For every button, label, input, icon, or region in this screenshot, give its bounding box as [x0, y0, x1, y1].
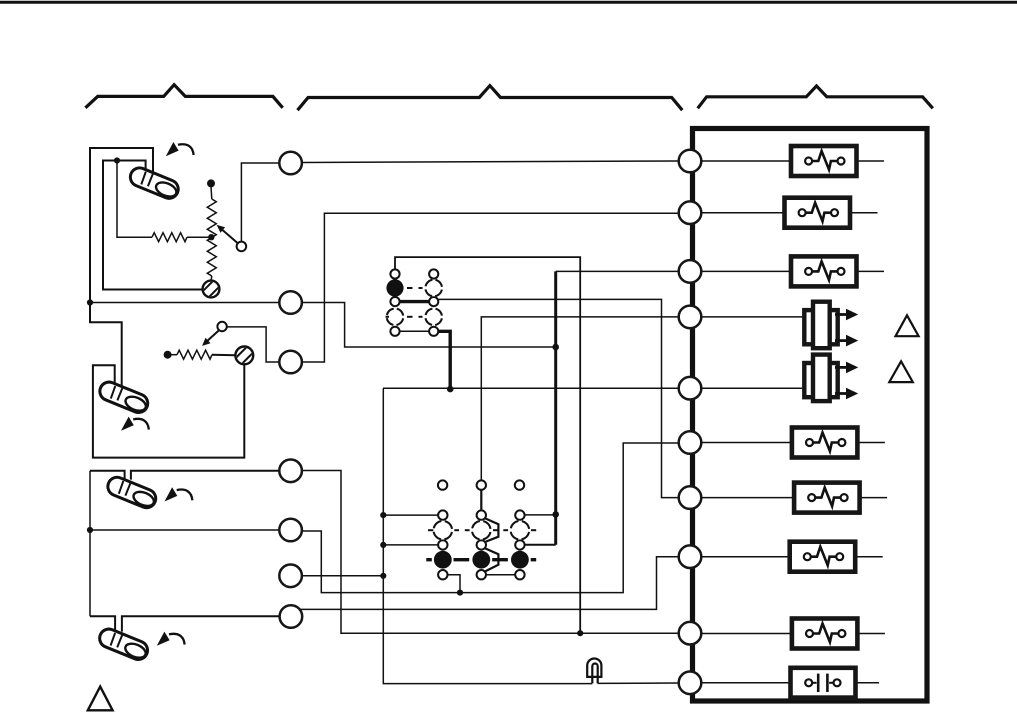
connector plug P1 arrows: [835, 315, 847, 341]
breaker F2 box: [785, 198, 851, 228]
switch block terminal: [438, 570, 447, 579]
rotate arrow for S1: [166, 142, 194, 156]
rotate arrow for S3: [165, 487, 193, 501]
breaker F3 lead: [701, 270, 805, 272]
wire pin2 right to x344 down to relay feed: [302, 303, 553, 348]
switch block terminal: [477, 540, 486, 549]
switch block row1 contact open (dashed): [511, 521, 530, 540]
relay K1 terminal: [390, 297, 399, 306]
wire pin6 to x383 junction: [302, 575, 383, 577]
wire col1 bottom terminal down to y592: [447, 575, 460, 593]
wire pot2 wiper to pin3: [227, 327, 279, 362]
relay K1 link dashes row1: [407, 287, 423, 289]
breaker F1 box: [791, 146, 857, 176]
y389 net to right-pin5 and x383 bus down to lamp wire: [383, 388, 678, 683]
switch block terminal: [438, 540, 447, 549]
connector plug P1 body: [804, 310, 837, 344]
relay K1 contact open (dashed): [387, 309, 404, 326]
wire right-pin4 to col2 actuator top: [481, 317, 678, 480]
connector pin 7: [280, 605, 303, 628]
capacitor C1 box: [791, 668, 856, 698]
connector plug P2 lead: [701, 387, 806, 389]
control unit pin R3: [679, 260, 702, 283]
control unit pin R7: [679, 486, 702, 509]
VR1 tap junction: [208, 234, 214, 240]
switch block row2 contact closed (filled): [434, 551, 452, 569]
breaker F7 box: [792, 619, 858, 649]
breaker F4 element: [813, 433, 839, 452]
junction dots on x383 bus: [380, 512, 386, 518]
switch block terminal: [477, 510, 486, 519]
rotate arrow for S2: [121, 417, 149, 431]
note triangle 3: [88, 687, 113, 711]
relay K1 terminal: [429, 297, 438, 306]
connector pin 5: [279, 519, 302, 542]
note triangle 1: [896, 315, 919, 336]
relay K1 contact closed (filled): [386, 279, 403, 296]
control unit pin R10: [679, 672, 702, 695]
junction x556/y514: [552, 511, 559, 518]
breaker F5 lead: [701, 497, 808, 499]
breaker F1 lead: [701, 160, 805, 162]
relay K1 link dashes row2: [386, 316, 423, 318]
ignition key switch S3: [105, 474, 158, 510]
switch block floating contact point: [515, 480, 524, 489]
lamp/LED DS1: [587, 658, 601, 676]
connector pin 2: [279, 291, 302, 314]
switch block terminal: [515, 570, 524, 579]
row2 link dashes (thick): [426, 558, 536, 561]
resistor R2 / pot2 body: [164, 351, 172, 359]
control unit box U1: [693, 129, 928, 702]
control unit pin R9: [679, 622, 702, 645]
connector pin 4: [279, 460, 302, 483]
breaker F6 element: [811, 547, 837, 566]
wire pin5 left: [90, 529, 279, 531]
breaker F5 box: [794, 483, 860, 513]
junction x580/y633: [577, 630, 583, 636]
wire key3 right segment to pin4: [131, 471, 279, 480]
junction pin2 left: [87, 299, 93, 305]
wire pin3 to right-pin2: [302, 213, 679, 362]
junction y592/x460: [457, 590, 463, 596]
capacitor C1 element: [812, 682, 816, 684]
wire pin5 to y592 bus to right-pin6: [302, 443, 679, 593]
pot2 adjuster (hatched circle): [226, 337, 256, 367]
pot2 wiper arrow: [207, 330, 219, 341]
wire key2 left terminal loop to pot2 bottom: [93, 365, 244, 458]
relay K1 terminal: [429, 327, 438, 336]
wire x90 down from pin4 row to key4 row: [89, 471, 91, 616]
relay K1 terminal: [390, 269, 399, 278]
x556 bus: right-pin3 lead down to col3: [556, 270, 679, 272]
row1 link dashes: [428, 529, 536, 531]
switch block row2 contact closed (filled): [511, 551, 529, 569]
connector plug P2 arrows: [835, 367, 847, 393]
relay K1 middle-right to right-pin7: [438, 299, 679, 497]
brace group 1 (left section): [85, 85, 282, 108]
switch block row2 contact closed (filled): [472, 551, 490, 569]
ignition key switch S4: [97, 626, 150, 662]
junction pin5 left: [87, 527, 93, 533]
col2 actuator link: [481, 489, 498, 571]
switch block row1 contact open (dashed): [434, 521, 453, 540]
breaker F4 box: [792, 428, 858, 458]
brace group 2 (middle section): [298, 86, 683, 111]
resistor R1: [152, 233, 187, 242]
lamp wire right side to right-pin10: [598, 682, 679, 684]
col2-col3 bottom link wire: [486, 574, 515, 576]
connector pin 6: [279, 565, 302, 588]
relay K1 bottoms to x450 (thick) down to y389 junction: [438, 331, 450, 387]
connector plug P1 lead: [701, 316, 806, 318]
breaker F6 lead: [701, 556, 804, 558]
wire pin1 to right-pin1: [302, 161, 679, 163]
wire key1 outer terminal loop: [90, 148, 153, 301]
relay K1 terminal: [429, 269, 438, 278]
wire key3 left segment: [90, 471, 125, 480]
relay K1 middle link (thick): [399, 300, 431, 303]
wire pin4 to y633 to right-pin9: [302, 471, 679, 634]
junction x450/y389: [447, 386, 454, 393]
switch block terminal: [515, 510, 524, 519]
control unit pin R1: [679, 150, 702, 173]
wire pin7 to right-pin8: [300, 557, 679, 610]
switch block terminal: [438, 510, 447, 519]
brace group 3 (right section): [698, 86, 933, 108]
control unit pin R5: [679, 377, 702, 400]
wire to pin2: [90, 302, 279, 304]
VR1 wiper terminal circle: [237, 242, 247, 252]
relay K1 terminal: [390, 327, 399, 336]
pot2 wiper terminal circle: [217, 322, 226, 331]
control unit pin R2: [679, 201, 702, 224]
wire key4 left segment: [90, 616, 115, 631]
ignition key switch S2: [97, 379, 150, 415]
breaker F7 element: [813, 624, 839, 643]
relay K1 contact open (dashed): [425, 309, 442, 326]
wire branch to horizontal resistor R1: [117, 161, 152, 238]
breaker F6 box: [790, 542, 856, 572]
control unit pin R6: [679, 431, 702, 454]
breaker F2 lead: [701, 212, 799, 214]
breaker F1 element: [812, 151, 838, 170]
breaker F5 element: [815, 488, 841, 507]
junction x556/y347: [552, 344, 559, 351]
wire down to key2 right terminal: [90, 304, 122, 386]
control unit pin R8: [679, 545, 702, 568]
breaker F7 lead: [701, 633, 806, 635]
switch block terminal: [515, 540, 524, 549]
relay K1 top-left wire to x580 bus down to y633: [395, 257, 580, 633]
ignition key switch S1: [128, 165, 181, 201]
wire key4 right segment to pin7: [122, 616, 280, 631]
rotate arrow for S4: [157, 632, 185, 646]
wire key1 inner terminal to pot1 bottom: [103, 161, 203, 290]
breaker F3 box: [791, 256, 857, 286]
switch block floating contact point: [477, 480, 486, 489]
relay K1 bottom link: [396, 330, 433, 332]
connector pin 1: [279, 152, 302, 175]
wire pin1 to pot1 wiper terminal: [241, 163, 279, 242]
junction key1 inner branch: [114, 157, 120, 163]
relay K1 contact open (dashed): [425, 280, 442, 297]
connector plug P2 body: [804, 363, 837, 397]
breaker F3 element: [812, 261, 838, 280]
potentiometer VR1 body: [210, 186, 213, 199]
breaker F4 lead: [701, 442, 806, 444]
wire x383 to col1 top terminal: [383, 514, 438, 516]
wire x383 to col1 mid terminal: [383, 544, 438, 546]
control unit pin R4: [679, 306, 702, 329]
page top border line: [0, 1, 1017, 4]
VR1 top terminal dot: [207, 179, 215, 187]
VR1 bottom adjuster (hatched circle): [193, 271, 223, 301]
capacitor C1 leads: [701, 682, 805, 684]
connector pin 3: [279, 351, 302, 374]
wire col3 top terminal to x556: [525, 514, 556, 516]
switch block floating contact point: [438, 480, 447, 489]
switch block terminal: [477, 570, 486, 579]
switch block row1 contact open (dashed): [472, 521, 491, 540]
note triangle 2: [889, 361, 913, 382]
VR1 wiper arrow: [223, 230, 238, 243]
breaker F2 element: [805, 203, 831, 222]
